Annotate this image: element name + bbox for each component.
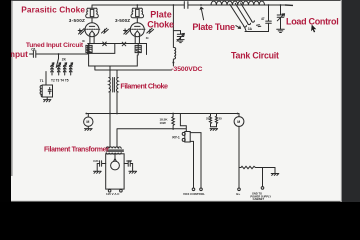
svg-text:CABINET: CABINET	[253, 197, 265, 201]
svg-text:Choke: Choke	[147, 19, 174, 29]
wire relay branch	[117, 114, 186, 147]
capacitor load control (variable)	[277, 5, 285, 33]
svg-text:3t: 3t	[82, 39, 85, 43]
wire grid bus	[88, 43, 147, 45]
terminal circle GND	[261, 187, 264, 190]
mouse cursor	[311, 25, 316, 33]
terminal circle B+	[238, 188, 241, 191]
tube V1 3-500Z	[84, 23, 99, 44]
wire gnd drop	[262, 168, 264, 187]
filament choke FC bifilar	[109, 78, 118, 93]
resistor R 18.5K	[172, 114, 175, 130]
relay RY-1	[182, 132, 201, 189]
svg-text:VOX CONTROL: VOX CONTROL	[183, 192, 205, 196]
paper background	[11, 0, 342, 202]
capacitor C22	[124, 161, 137, 174]
tank tap diagonal 1	[230, 4, 244, 25]
capacitor C21	[94, 161, 106, 174]
svg-text:Plate Tune: Plate Tune	[192, 22, 235, 32]
tank tap diagonal 2	[235, 3, 247, 23]
svg-text:T2 T3 T4 T5: T2 T3 T4 T5	[51, 78, 69, 82]
grid network box V2	[135, 44, 141, 56]
grid arrows left of V1	[78, 29, 85, 35]
svg-text:C6: C6	[31, 47, 35, 51]
wire switch bottom	[245, 5, 269, 32]
parasitic choke PC1	[86, 5, 99, 23]
capacitor X mark 2	[122, 42, 126, 46]
svg-text:3t: 3t	[146, 36, 149, 40]
inductor L tank coil	[211, 1, 265, 5]
filament transformer T6	[106, 147, 124, 190]
capacitor padder	[266, 21, 272, 23]
switch SW contacts	[244, 21, 261, 32]
svg-text:25: 25	[206, 117, 210, 121]
svg-text:3-500Z: 3-500Z	[115, 18, 130, 23]
bottom edge hairline	[11, 200, 342, 202]
terminal circles VOX	[192, 188, 195, 191]
right dark bar	[342, 0, 360, 202]
svg-text:Tank Circuit: Tank Circuit	[231, 50, 279, 60]
left bar overlay (clips Input text like the video crop)	[0, 0, 11, 202]
svg-text:10W: 10W	[160, 121, 166, 125]
left black bar	[0, 0, 11, 202]
svg-text:3-500Z: 3-500Z	[69, 18, 85, 23]
svg-text:Parasitic Choke: Parasitic Choke	[21, 4, 85, 14]
svg-text:M: M	[86, 120, 89, 124]
resistor R bleed horizontal	[239, 166, 275, 168]
capacitor C1 blocking	[184, 2, 188, 9]
svg-text:M: M	[237, 120, 240, 124]
svg-text:Filament Transformer: Filament Transformer	[44, 147, 109, 154]
grid network box V1	[86, 44, 92, 54]
node junction dots plate line	[136, 4, 281, 6]
coil T4	[63, 63, 66, 75]
terminal circles 115VAC	[108, 189, 111, 192]
grid arrows right of V1	[102, 28, 109, 33]
svg-text:115 V A C: 115 V A C	[106, 192, 120, 196]
svg-text:C22: C22	[126, 159, 132, 163]
resistor R 25b	[215, 114, 217, 127]
capacitor plate tune (variable)	[173, 31, 184, 43]
wire input drop	[56, 54, 58, 68]
coil T2	[51, 63, 54, 75]
node HV junction	[172, 62, 174, 64]
input wire	[30, 45, 88, 54]
capacitor C6	[33, 51, 35, 58]
svg-text:25: 25	[219, 117, 223, 121]
resistor R 25a	[209, 114, 211, 127]
coil T5	[69, 63, 72, 75]
schematic left border line	[11, 1, 13, 176]
wire T1 feed	[45, 72, 47, 86]
wire filament rect inner	[88, 44, 115, 54]
tube V2 3-500Z	[130, 23, 145, 44]
wire filament drop A	[109, 66, 111, 147]
wire filament rect outer	[89, 44, 147, 67]
meter M1	[84, 114, 93, 131]
chassis ground right	[271, 168, 279, 176]
svg-text:C21: C21	[93, 159, 99, 163]
tank tap diagonal 3	[241, 3, 252, 21]
svg-text:T1: T1	[40, 79, 44, 83]
wires transformer bottom	[110, 188, 121, 190]
svg-text:3A: 3A	[248, 27, 253, 31]
wire cathode return	[95, 66, 172, 70]
svg-text:B+: B+	[236, 192, 240, 196]
svg-text:-3500VDC: -3500VDC	[171, 66, 202, 73]
svg-text:Plate: Plate	[150, 10, 172, 20]
top edge hairline	[11, 0, 342, 2]
grid arrows right of V2	[147, 28, 154, 33]
coil T3	[57, 63, 60, 75]
wire meter bus	[86, 113, 237, 115]
transformer T1	[40, 85, 52, 102]
wire filament drop B	[116, 70, 118, 114]
svg-text:Filament Choke: Filament Choke	[120, 82, 168, 91]
wire: plate line top	[92, 4, 285, 6]
wire: plate line thick end	[285, 4, 293, 6]
svg-text:RY-1: RY-1	[172, 136, 180, 140]
annotation arrow plate tune	[200, 7, 204, 20]
capacitor X mark 1	[103, 42, 107, 46]
svg-text:47: 47	[261, 17, 265, 21]
grid arrows left of V2	[124, 29, 131, 35]
annotation arrow switch pointer	[236, 26, 241, 29]
parasitic choke PC2	[131, 5, 144, 23]
ground resistors 25	[210, 127, 218, 131]
node input junction	[58, 53, 60, 55]
meter M2	[234, 114, 244, 189]
plate choke RFC on HV line	[173, 5, 175, 66]
svg-text:2K: 2K	[62, 58, 67, 62]
